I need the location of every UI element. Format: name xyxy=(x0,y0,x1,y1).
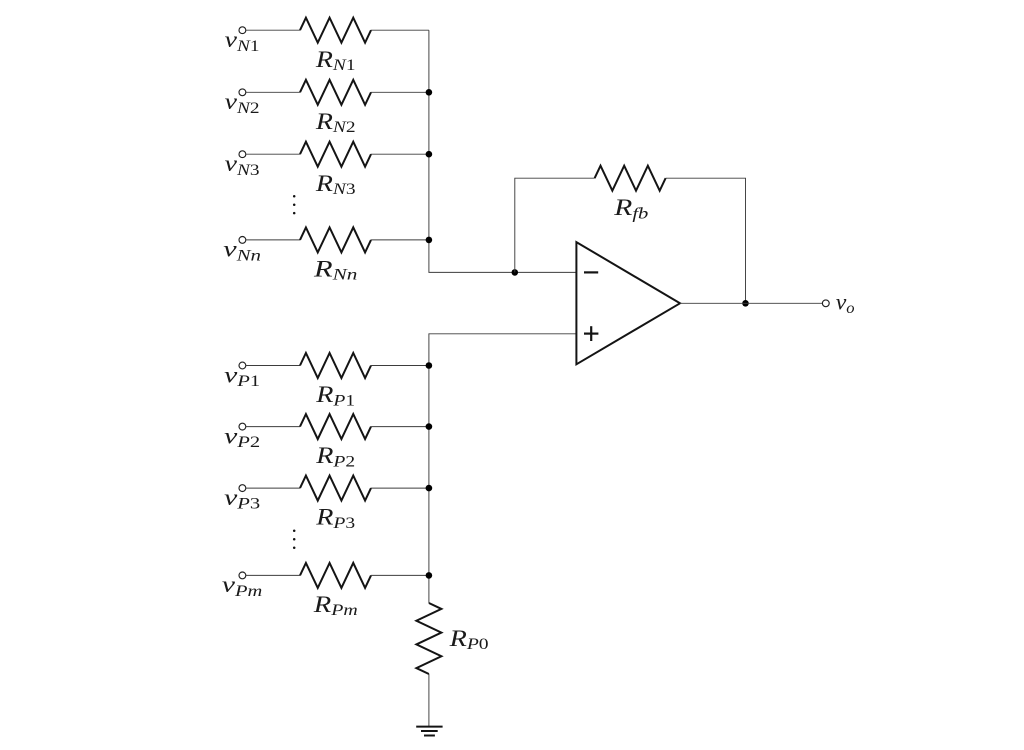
wire v_Pm to R_Pm xyxy=(246,574,300,576)
label v_o xyxy=(836,290,855,317)
wire v_N2 to R_N2 xyxy=(246,91,300,93)
wire R_P2 to bus xyxy=(371,426,429,428)
wire v_P2 to R_P2 xyxy=(246,426,300,428)
op-amp minus sign xyxy=(584,271,598,273)
svg-text:RP1: RP1 xyxy=(315,382,355,409)
node: inverting input junction xyxy=(512,269,519,276)
resistor R_N3 xyxy=(300,142,371,167)
resistor R_P2 xyxy=(300,414,371,439)
wire R_P1 to bus xyxy=(371,365,429,367)
label v_Nn xyxy=(223,236,261,265)
resistor R_fb xyxy=(595,166,666,191)
label R_P3 xyxy=(315,504,355,531)
terminal v_P1 xyxy=(239,362,246,369)
ellipsis dots (P inputs) xyxy=(293,529,296,532)
label v_Pm xyxy=(222,571,262,599)
wire R_N2 to bus xyxy=(371,91,429,93)
wire R_P0 to ground xyxy=(428,674,430,726)
wire v_N3 to R_N3 xyxy=(246,153,300,155)
svg-text:RNn: RNn xyxy=(313,256,357,284)
label R_P2 xyxy=(315,443,355,470)
svg-text:RN1: RN1 xyxy=(315,46,356,73)
label v_P1 xyxy=(224,361,260,389)
wire R_Nn to bus xyxy=(371,239,429,241)
wire v_Nn to R_Nn xyxy=(246,239,300,241)
label R_Pm xyxy=(313,592,358,619)
svg-text:RN2: RN2 xyxy=(315,108,356,135)
ellipsis dots (N inputs) xyxy=(293,195,296,198)
junction node R_Nn/bus xyxy=(426,237,433,244)
terminal v_P2 xyxy=(239,423,246,430)
resistor R_P1 xyxy=(300,353,371,378)
svg-text:RN3: RN3 xyxy=(315,170,356,197)
wire R_N3 to bus xyxy=(371,153,429,155)
terminal v_Nn xyxy=(239,237,246,244)
ground xyxy=(416,726,442,728)
resistor R_Pm xyxy=(300,563,371,588)
resistor R_P0 xyxy=(416,603,441,674)
svg-text:RPm: RPm xyxy=(313,592,358,619)
junction node R_Pm/bus xyxy=(426,572,433,579)
wire: P input bus to non-inverting input xyxy=(429,334,577,603)
terminal v_N2 xyxy=(239,89,246,96)
label v_P2 xyxy=(224,423,260,451)
terminal v_o xyxy=(822,300,829,307)
terminal v_P3 xyxy=(239,485,246,492)
resistor R_P3 xyxy=(300,476,371,501)
wire R_N1 to bus xyxy=(371,29,429,31)
junction node R_N3/bus xyxy=(426,151,433,158)
wire R_P3 to bus xyxy=(371,487,429,489)
svg-text:vNn: vNn xyxy=(223,236,261,265)
svg-text:RP0: RP0 xyxy=(449,625,489,652)
svg-text:vo: vo xyxy=(836,290,855,317)
label R_P0 xyxy=(449,625,489,652)
junction node R_P2/bus xyxy=(426,423,433,430)
terminal v_Pm xyxy=(239,572,246,579)
label R_N2 xyxy=(315,108,356,135)
op-amp plus sign xyxy=(584,333,598,335)
junction node R_P3/bus xyxy=(426,485,433,492)
terminal v_N3 xyxy=(239,151,246,158)
op-amp U1 xyxy=(576,242,680,364)
junction node R_P1/bus xyxy=(426,362,433,369)
terminal v_N1 xyxy=(239,27,246,34)
node: output junction xyxy=(742,300,749,307)
label v_P3 xyxy=(224,484,260,512)
wire v_P1 to R_P1 xyxy=(246,365,300,367)
label v_N1 xyxy=(225,26,260,54)
wire: feedback right branch xyxy=(666,178,746,303)
wire: N input bus to inverting input xyxy=(429,30,577,272)
label R_Nn xyxy=(313,256,357,284)
resistor R_N2 xyxy=(300,80,371,105)
svg-text:Rfb: Rfb xyxy=(613,194,648,222)
label R_P1 xyxy=(315,382,355,409)
resistor R_N1 xyxy=(300,18,371,43)
wire: op-amp output to v_o xyxy=(680,302,822,304)
wire R_Pm to bus xyxy=(371,574,429,576)
label v_N2 xyxy=(225,88,260,116)
label v_N3 xyxy=(225,150,260,178)
label R_N1 xyxy=(315,46,356,73)
wire v_P3 to R_P3 xyxy=(246,487,300,489)
junction node R_N2/bus xyxy=(426,89,433,96)
svg-text:RP2: RP2 xyxy=(315,443,355,470)
svg-text:RP3: RP3 xyxy=(315,504,355,531)
label R_N3 xyxy=(315,170,356,197)
label R_fb xyxy=(613,194,648,222)
resistor R_Nn xyxy=(300,227,371,252)
wire v_N1 to R_N1 xyxy=(246,29,300,31)
wire: feedback left branch xyxy=(515,178,595,272)
